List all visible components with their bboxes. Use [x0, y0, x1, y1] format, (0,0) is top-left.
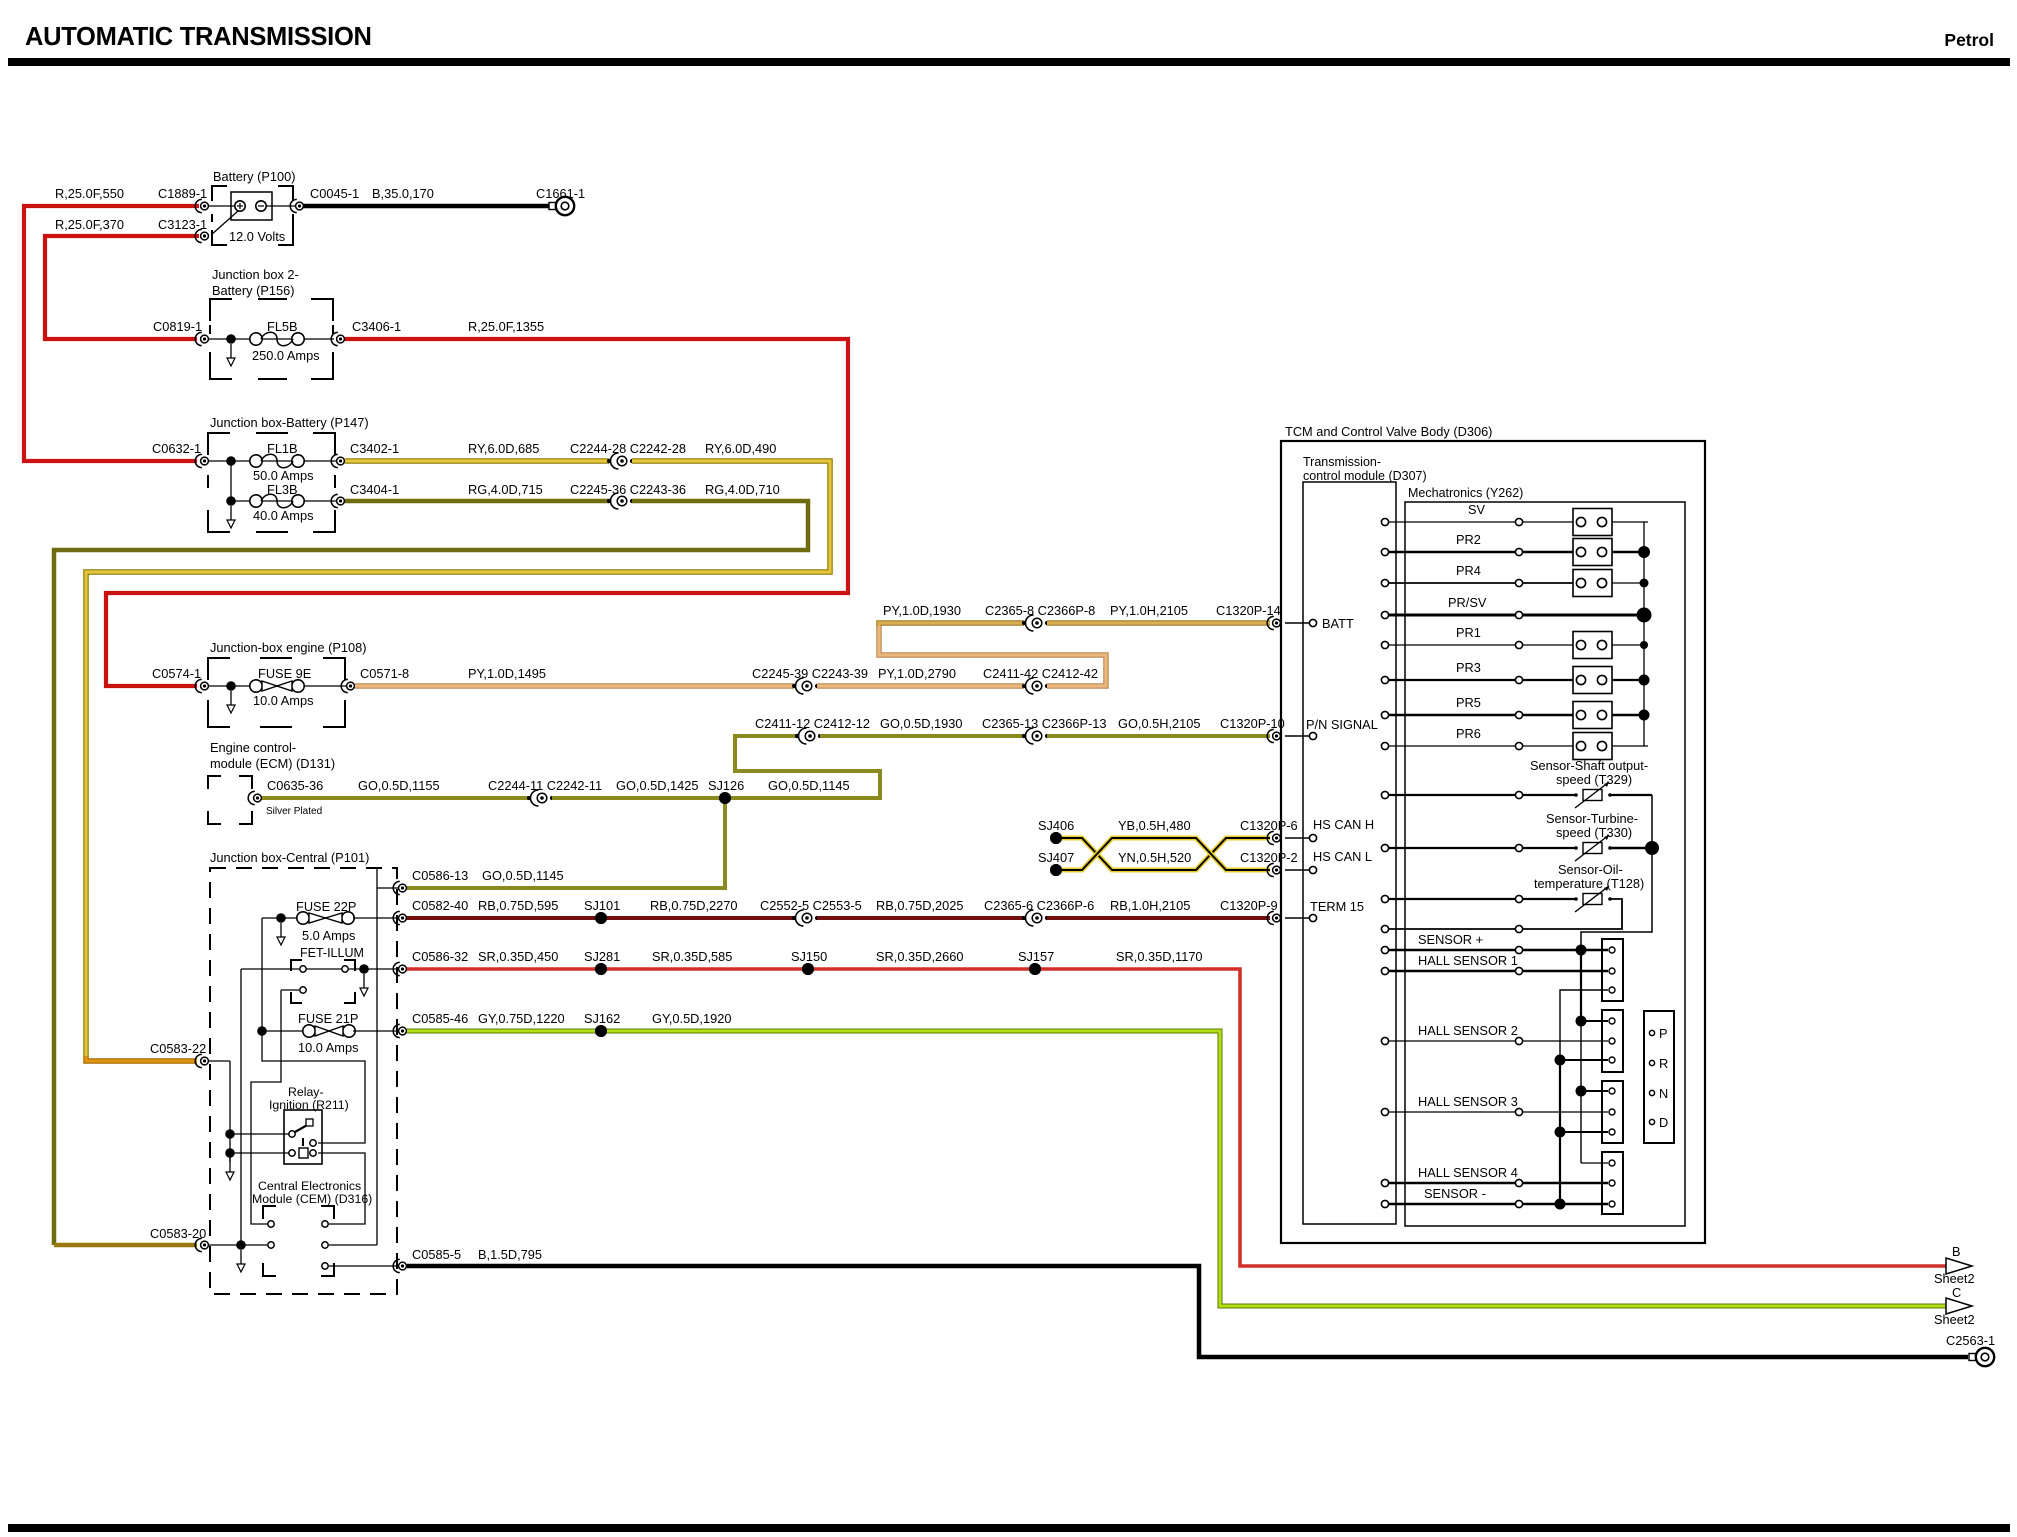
svg-text:C0632-1: C0632-1 — [152, 441, 201, 456]
solenoid valve PR3 — [1573, 667, 1612, 694]
solenoid valve PR4 — [1573, 570, 1612, 597]
node solenoid bus dot PR3 — [1639, 675, 1650, 686]
wire PY,1.0D,2790 tan — [817, 683, 1024, 689]
svg-text:Engine control-: Engine control- — [210, 740, 296, 755]
splice SJ281 — [595, 963, 607, 975]
P101 internal long vertical — [376, 869, 378, 1245]
relay R211 box — [284, 1110, 322, 1164]
splice SJ101 dot — [595, 912, 607, 924]
svg-text:C3123-1: C3123-1 — [158, 217, 207, 232]
node hall chain dot h3p1 — [1576, 1086, 1587, 1097]
wire PY,1.0D,1495 tan — [355, 683, 794, 689]
wire RB,0.75D,595 maroon — [407, 916, 601, 920]
wire GO,0.5D,1155 olive — [262, 796, 529, 800]
connector C0585-5 — [393, 1259, 400, 1272]
connector C3123-1 — [195, 229, 202, 242]
P101 internal wire C0583-20 — [209, 1244, 267, 1246]
connector C0586-13 — [393, 881, 400, 894]
fusible link FL3B — [250, 495, 262, 507]
svg-text:TCM and Control Valve Body (D3: TCM and Control Valve Body (D306) — [1285, 424, 1492, 439]
TCM pin row PR5 — [1381, 711, 1388, 718]
svg-text:Sensor-Shaft output-: Sensor-Shaft output- — [1530, 758, 1648, 773]
splice SJ162 dot — [595, 1025, 607, 1037]
svg-text:Relay-: Relay- — [288, 1085, 324, 1099]
svg-text:C1320P-2: C1320P-2 — [1240, 850, 1298, 865]
mech pin row PR6 — [1515, 742, 1522, 749]
wire RY,6.0D,685 yellow — [345, 458, 609, 464]
svg-text:PR1: PR1 — [1456, 625, 1481, 640]
inline connector C2411-12 C2412-12 — [795, 734, 799, 738]
TCM pin SENSOR - — [1381, 1200, 1388, 1207]
svg-text:SV: SV — [1468, 502, 1486, 517]
connector C0635-36 — [248, 791, 255, 804]
svg-text:Junction box 2-: Junction box 2- — [212, 267, 299, 282]
TCM external wire HS CAN L — [1285, 869, 1309, 871]
CEM outline — [263, 1206, 276, 1219]
svg-text:C0585-46: C0585-46 — [412, 1011, 468, 1026]
svg-text:C0585-5: C0585-5 — [412, 1247, 461, 1262]
svg-text:C0574-1: C0574-1 — [152, 666, 201, 681]
wire GO,0.5D,1930 olive — [735, 736, 797, 739]
ring connector C1320P at BATT — [1267, 616, 1274, 629]
svg-text:C1320P-14: C1320P-14 — [1216, 603, 1281, 618]
P101 internal gate chain — [251, 990, 281, 1224]
svg-text:RY,6.0D,490: RY,6.0D,490 — [705, 441, 776, 456]
svg-text:FUSE 21P: FUSE 21P — [298, 1011, 358, 1026]
svg-text:B: B — [1952, 1244, 1961, 1259]
wire YB,0.5H,480 twisted — [1062, 838, 1270, 870]
svg-text:C0583-22: C0583-22 — [150, 1041, 206, 1056]
wire GO olive down from SJ126 — [407, 798, 725, 888]
P101 internal relay output wiring — [262, 1031, 365, 1143]
mech pin HALL SENSOR 2 — [1515, 1037, 1522, 1044]
svg-text:SR,0.35D,2660: SR,0.35D,2660 — [876, 949, 964, 964]
wire PR3 into solenoid — [1523, 679, 1573, 681]
svg-text:SJ162: SJ162 — [584, 1011, 620, 1026]
TCM pin T128 — [1381, 895, 1388, 902]
TCM external wire P/N SIGNAL — [1285, 735, 1309, 737]
svg-text:PR4: PR4 — [1456, 563, 1481, 578]
battery internal link to C0045-1 — [267, 205, 296, 207]
solenoid valve PR1 — [1573, 632, 1612, 659]
svg-text:P: P — [1659, 1026, 1668, 1041]
wire T329 return — [1610, 794, 1652, 796]
P101 internal stub C0586-13 — [377, 887, 398, 889]
node solenoid bus dot PR1 — [1640, 641, 1648, 649]
P101 internal wire from C0583-22 — [209, 1060, 230, 1062]
junction box P108 outline — [208, 658, 230, 680]
ground arrow P108 — [230, 691, 232, 705]
solenoid valve PR6 — [1573, 733, 1612, 760]
svg-text:R: R — [1659, 1056, 1668, 1071]
battery internal link to C3123-1 — [211, 211, 238, 235]
wire RY,6.0D,490 yellow — [86, 461, 830, 1056]
svg-text:C2365-6 C2366P-6: C2365-6 C2366P-6 — [984, 898, 1094, 913]
P101 internal CEM right2 wiring — [329, 1244, 377, 1246]
svg-text:PR3: PR3 — [1456, 660, 1481, 675]
node junction dot FL3B — [226, 496, 236, 506]
TCM pin HS CAN L — [1309, 866, 1316, 873]
svg-text:PY,1.0D,1930: PY,1.0D,1930 — [883, 603, 961, 618]
svg-text:C0583-20: C0583-20 — [150, 1226, 206, 1241]
connector C0583-20 — [195, 1238, 202, 1251]
svg-text:FL1B: FL1B — [267, 441, 298, 456]
splice SJ150 dot — [802, 963, 814, 975]
relay blade — [295, 1124, 309, 1132]
svg-text:C2563-1: C2563-1 — [1946, 1333, 1995, 1348]
svg-text:C0635-36: C0635-36 — [267, 778, 323, 793]
svg-text:Junction box-Battery (P147): Junction box-Battery (P147) — [210, 415, 369, 430]
svg-text:Sheet2: Sheet2 — [1934, 1312, 1975, 1327]
svg-text:C2245-36 C2243-36: C2245-36 C2243-36 — [570, 482, 686, 497]
hall sensor connector 1 — [1602, 939, 1623, 1001]
svg-text:R,25.0F,1355: R,25.0F,1355 — [468, 319, 544, 334]
CEM pin right3 — [322, 1263, 328, 1269]
wire PY,1.0D,1930 yellow — [879, 623, 1024, 626]
svg-text:HS CAN H: HS CAN H — [1313, 817, 1374, 832]
svg-text:SJ407: SJ407 — [1038, 850, 1074, 865]
mech pin row SV — [1515, 518, 1522, 525]
ground arrow P147 — [230, 506, 232, 520]
splice SJ407 dot — [1050, 864, 1062, 876]
inline connector C2365-8 C2366P-8 — [1022, 621, 1026, 625]
wire GY,0.75D,1220 green — [407, 1029, 601, 1034]
solenoid valve PR5 — [1573, 702, 1612, 729]
svg-text:12.0 Volts: 12.0 Volts — [229, 229, 285, 244]
solenoid return bus — [1643, 522, 1645, 746]
PRND position indicator — [1644, 1011, 1674, 1143]
connector C3404-1 — [331, 494, 338, 507]
TCM pin row PR1 — [1381, 641, 1388, 648]
svg-text:P/N SIGNAL: P/N SIGNAL — [1306, 717, 1378, 732]
wire T128 return loop — [1523, 899, 1622, 929]
svg-text:SJ157: SJ157 — [1018, 949, 1054, 964]
svg-text:GO,0.5D,1145: GO,0.5D,1145 — [768, 778, 850, 793]
TCM pin HALL SENSOR 1 — [1381, 967, 1388, 974]
ground arrow fuse22P — [280, 923, 282, 937]
svg-text:temperature (T128): temperature (T128) — [1534, 876, 1644, 891]
wire SR,0.35D,2660 red — [808, 967, 1035, 971]
relay common contact — [289, 1131, 295, 1137]
svg-text:HALL SENSOR 2: HALL SENSOR 2 — [1418, 1023, 1518, 1038]
wire PR1 into solenoid — [1523, 644, 1573, 646]
wire GO,0.5H,2105 olive — [1047, 734, 1270, 738]
FET-ILLUM terminal in — [300, 966, 306, 972]
svg-text:HALL SENSOR 3: HALL SENSOR 3 — [1418, 1094, 1518, 1109]
svg-text:Mechatronics (Y262): Mechatronics (Y262) — [1408, 486, 1523, 500]
svg-text:SJ101: SJ101 — [584, 898, 620, 913]
svg-text:Central Electronics: Central Electronics — [258, 1179, 361, 1193]
svg-text:PR6: PR6 — [1456, 726, 1481, 741]
svg-text:SR,0.35D,1170: SR,0.35D,1170 — [1116, 949, 1203, 964]
wire SR,0.35D,450 red — [407, 967, 601, 971]
ring terminal C2563-1 — [1969, 1354, 1976, 1361]
svg-text:FUSE 9E: FUSE 9E — [258, 666, 311, 681]
svg-text:speed (T330): speed (T330) — [1556, 825, 1632, 840]
mech pin T128 — [1515, 895, 1522, 902]
hall sensor connector 4 — [1602, 1152, 1623, 1214]
svg-text:TERM 15: TERM 15 — [1310, 899, 1364, 914]
mech pin HALL SENSOR 4 — [1515, 1179, 1522, 1186]
svg-text:C2552-5 C2553-5: C2552-5 C2553-5 — [760, 898, 862, 913]
svg-text:C3406-1: C3406-1 — [352, 319, 401, 334]
svg-text:C: C — [1952, 1285, 1961, 1300]
fuse FUSE 9E — [250, 680, 262, 692]
svg-text:RY,6.0D,685: RY,6.0D,685 — [468, 441, 539, 456]
ground arrow P156 — [230, 344, 232, 358]
CEM pin left2 — [268, 1242, 274, 1248]
svg-text:D: D — [1659, 1115, 1668, 1130]
wire SR,0.35D,585 red — [601, 967, 808, 971]
fuse FUSE 21P — [303, 1025, 315, 1037]
svg-text:FL5B: FL5B — [267, 319, 298, 334]
wire h4p1 — [1581, 1162, 1608, 1164]
ground arrow C0583-20 — [240, 1250, 242, 1264]
junction box P147 outline — [208, 433, 230, 455]
svg-text:PY,1.0D,1495: PY,1.0D,1495 — [468, 666, 546, 681]
solenoid valve PR2 — [1573, 539, 1612, 566]
splice SJ126 — [719, 792, 731, 804]
battery minus terminal — [256, 201, 266, 211]
svg-text:Junction-box engine (P108): Junction-box engine (P108) — [210, 640, 367, 655]
wire PR/SV to solenoid bus — [1523, 614, 1648, 617]
svg-text:C1661-1: C1661-1 — [536, 186, 585, 201]
svg-text:SR,0.35D,585: SR,0.35D,585 — [652, 949, 732, 964]
wire PY,1.0H,2105 yellow — [1047, 620, 1270, 626]
svg-text:R,25.0F,370: R,25.0F,370 — [55, 217, 124, 232]
wire h3p1 — [1581, 1090, 1608, 1092]
CEM pin right2 — [322, 1242, 328, 1248]
mech pin row PR1 — [1515, 641, 1522, 648]
relay coil left contact — [289, 1150, 295, 1156]
hall chain B wiring — [1560, 990, 1608, 1060]
wire PR5 into solenoid — [1523, 714, 1573, 717]
splice SJ157 — [1029, 963, 1041, 975]
wire YN,0.5H,520 twisted — [1062, 838, 1270, 870]
svg-text:GO,0.5D,1930: GO,0.5D,1930 — [880, 716, 963, 731]
svg-text:C2365-8 C2366P-8: C2365-8 C2366P-8 — [985, 603, 1095, 618]
mech pin SENSOR + — [1515, 946, 1522, 953]
sensor oil temperature T128 — [1583, 894, 1602, 905]
node junction dot FL1B — [226, 456, 236, 466]
P101 internal vertical FET input — [240, 969, 242, 1245]
splice SJ162 — [595, 1025, 607, 1037]
splice SJ150 — [802, 963, 814, 975]
wire SV solenoid return — [1612, 521, 1648, 523]
sensor turbine speed T330 — [1583, 843, 1602, 854]
svg-text:Silver Plated: Silver Plated — [266, 806, 322, 817]
svg-text:SJ281: SJ281 — [584, 949, 620, 964]
inline connector C2245-39 C2243-39 — [792, 684, 796, 688]
node junction dot C0583-20 — [236, 1240, 246, 1250]
svg-text:control module (D307): control module (D307) — [1303, 469, 1427, 483]
svg-text:Petrol: Petrol — [1944, 30, 1994, 50]
top rule bar — [8, 58, 2010, 66]
svg-text:C1320P-9: C1320P-9 — [1220, 898, 1278, 913]
connector C3406-1 — [331, 332, 338, 345]
wire B,35.0,170 black — [303, 204, 549, 209]
ring connector C1320P at HS CAN L — [1267, 863, 1274, 876]
wire h2p3 — [1560, 1059, 1608, 1061]
svg-text:C0586-32: C0586-32 — [412, 949, 468, 964]
wire B,1.5D,795 black — [407, 1266, 1968, 1357]
TCM pin T329 — [1381, 791, 1388, 798]
TCM D306 outer box — [1281, 441, 1705, 1243]
TCM pin T128 return — [1381, 925, 1388, 932]
hall sensor connector 3 — [1602, 1081, 1623, 1143]
svg-text:GY,0.75D,1220: GY,0.75D,1220 — [478, 1011, 565, 1026]
svg-text:C0571-8: C0571-8 — [360, 666, 409, 681]
mech pin HALL SENSOR 3 — [1515, 1108, 1522, 1115]
TCM pin row SV — [1381, 518, 1388, 525]
wire h2p1 — [1581, 1020, 1608, 1022]
svg-text:RB,0.75D,2025: RB,0.75D,2025 — [876, 898, 964, 913]
node junction dot relay coil feed — [225, 1148, 235, 1158]
node junction dot fuse22P — [276, 913, 286, 923]
node junction dot fuse21P — [257, 1026, 267, 1036]
svg-text:Sheet2: Sheet2 — [1934, 1271, 1975, 1286]
svg-text:GO,0.5D,1145: GO,0.5D,1145 — [482, 868, 564, 883]
svg-text:RG,4.0D,710: RG,4.0D,710 — [705, 482, 780, 497]
svg-text:speed (T329): speed (T329) — [1556, 772, 1632, 787]
TCM external wire BATT — [1285, 622, 1309, 624]
svg-text:SENSOR -: SENSOR - — [1424, 1186, 1486, 1201]
svg-text:SR,0.35D,450: SR,0.35D,450 — [478, 949, 558, 964]
node solenoid bus dot PR4 — [1640, 579, 1649, 588]
connector C1889-1 — [195, 199, 202, 212]
P101 internal coil return wiring — [318, 1153, 365, 1224]
svg-text:R,25.0F,550: R,25.0F,550 — [55, 186, 124, 201]
svg-text:SJ406: SJ406 — [1038, 818, 1074, 833]
connector C0583-22 — [195, 1054, 202, 1067]
wire PR2 solenoid return — [1612, 551, 1648, 554]
node hall chain dot sensor+ — [1576, 945, 1587, 956]
wire SR,0.35D,1170 red to sheet B — [1035, 969, 1946, 1266]
svg-text:module (ECM) (D131): module (ECM) (D131) — [210, 756, 335, 771]
svg-text:10.0 Amps: 10.0 Amps — [253, 693, 313, 708]
svg-text:PY,1.0D,2790: PY,1.0D,2790 — [878, 666, 956, 681]
svg-text:PR5: PR5 — [1456, 695, 1481, 710]
svg-text:C0819-1: C0819-1 — [153, 319, 202, 334]
sensor bus vertical — [1581, 795, 1652, 950]
connector C0571-8 — [341, 679, 348, 692]
ground arrow C0583-22 chain — [229, 1157, 231, 1172]
P101 internal CEM right3 wiring — [329, 1265, 398, 1267]
svg-text:N: N — [1659, 1086, 1668, 1101]
battery plus terminal — [235, 201, 245, 211]
svg-text:C2365-13 C2366P-13: C2365-13 C2366P-13 — [982, 716, 1107, 731]
hall sensor connector 2 — [1602, 1010, 1623, 1072]
TCM pin P/N SIGNAL — [1309, 732, 1316, 739]
connector C0585-46 — [393, 1024, 400, 1037]
svg-text:Battery (P156): Battery (P156) — [212, 283, 295, 298]
node junction dot P108 — [226, 681, 236, 691]
splice SJ406 — [1050, 832, 1062, 844]
fusible link FL1B — [250, 455, 262, 467]
node hall chain dot h2p1 — [1576, 1016, 1587, 1027]
svg-text:PY,1.0H,2105: PY,1.0H,2105 — [1110, 603, 1188, 618]
ring connector C1320P at HS CAN H — [1267, 831, 1274, 844]
relay coil box — [299, 1148, 308, 1158]
mech pin row PR3 — [1515, 676, 1522, 683]
node junction dot relay common feed — [225, 1129, 235, 1139]
P101 internal wire fuse22P output — [353, 917, 398, 919]
inline connector C2411-42 C2412-42 — [1022, 684, 1026, 688]
svg-text:Module (CEM) (D316): Module (CEM) (D316) — [252, 1192, 372, 1206]
wire orange into C0583-22 — [86, 1056, 197, 1061]
mech pin SENSOR - — [1515, 1200, 1522, 1207]
fusible link FL5B — [250, 333, 262, 345]
svg-text:FL3B: FL3B — [267, 482, 298, 497]
svg-text:C0582-40: C0582-40 — [412, 898, 468, 913]
svg-text:HS CAN L: HS CAN L — [1313, 849, 1372, 864]
wire PR6 into solenoid — [1523, 745, 1573, 747]
svg-text:B,1.5D,795: B,1.5D,795 — [478, 1247, 542, 1262]
battery P100 outline — [212, 186, 227, 201]
sheet arrow B — [1946, 1258, 1972, 1274]
P147 internal vertical — [230, 461, 232, 501]
svg-text:C2245-39 C2243-39: C2245-39 C2243-39 — [752, 666, 868, 681]
wire RB,0.75D,2270 maroon — [601, 916, 794, 920]
TCM external wire HS CAN H — [1285, 837, 1309, 839]
TCM pin HS CAN H — [1309, 834, 1316, 841]
inline connector C2245-36 C2243-36 — [607, 499, 611, 503]
svg-text:250.0 Amps: 250.0 Amps — [252, 348, 320, 363]
mech pin T128 return — [1515, 925, 1522, 932]
wire PR5 solenoid return — [1612, 714, 1648, 717]
wire GO,0.5D,1425 olive — [552, 796, 725, 800]
svg-text:40.0 Amps: 40.0 Amps — [253, 508, 313, 523]
svg-text:B,35.0,170: B,35.0,170 — [372, 186, 434, 201]
wire PR3 solenoid return — [1612, 679, 1648, 681]
svg-text:C2411-42 C2412-42: C2411-42 C2412-42 — [983, 666, 1098, 681]
P101 internal wire fuse21P input — [262, 1030, 309, 1032]
inline connector C2244-11 C2242-11 — [527, 796, 531, 800]
svg-text:FUSE 22P: FUSE 22P — [296, 899, 356, 914]
svg-text:C0586-13: C0586-13 — [412, 868, 468, 883]
wire PR2 into solenoid — [1523, 551, 1573, 554]
node solenoid bus dot PR/SV — [1637, 608, 1652, 623]
TCM pin row PR3 — [1381, 676, 1388, 683]
wire GO,0.5D,1145 olive loop — [725, 739, 880, 798]
FET-ILLUM outline — [291, 960, 302, 971]
relay coil right contact — [310, 1150, 316, 1156]
connector C3402-1 — [331, 454, 338, 467]
inline connector C2552-5 C2553-5 — [792, 916, 796, 920]
node hall chain dot h2p3 — [1555, 1055, 1566, 1066]
svg-text:SJ150: SJ150 — [791, 949, 827, 964]
wire PR6 solenoid return — [1612, 745, 1648, 747]
relay fixed contact tick — [302, 1138, 304, 1146]
svg-text:RB,1.0H,2105: RB,1.0H,2105 — [1110, 898, 1190, 913]
connector C0582-40 — [393, 911, 400, 924]
inline connector C2365-13 C2366P-13 — [1022, 734, 1026, 738]
TCM D307 box — [1303, 482, 1396, 1224]
TCM pin row PR/SV — [1381, 611, 1388, 618]
fuse FUSE 22P — [297, 912, 309, 924]
connector C0045-1 — [290, 199, 297, 212]
wire h3p3 — [1560, 1131, 1608, 1133]
svg-text:FET-ILLUM: FET-ILLUM — [300, 946, 364, 960]
svg-text:C0045-1: C0045-1 — [310, 186, 359, 201]
svg-text:C3402-1: C3402-1 — [350, 441, 399, 456]
svg-text:GO,0.5D,1155: GO,0.5D,1155 — [358, 778, 440, 793]
ground arrow FET output — [363, 974, 365, 988]
junction box P101 outline — [210, 868, 397, 1294]
svg-text:C3404-1: C3404-1 — [350, 482, 399, 497]
svg-text:HALL SENSOR 1: HALL SENSOR 1 — [1418, 953, 1518, 968]
mech pin row PR5 — [1515, 711, 1522, 718]
